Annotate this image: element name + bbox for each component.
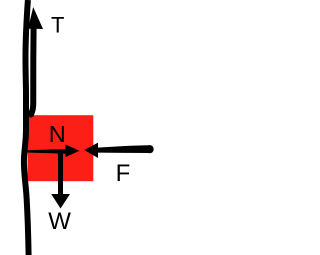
weight W arrowhead [51, 194, 70, 209]
tension T arrow shaft [31, 28, 34, 115]
block (red square) [28, 115, 94, 181]
weight W arrow shaft [58, 152, 63, 195]
normal N arrow shaft [27, 149, 67, 154]
tension T arrowhead [28, 7, 43, 29]
wall [24, 0, 29, 255]
applied force F arrowhead [84, 143, 98, 158]
svg-text:N: N [49, 121, 66, 147]
svg-text:F: F [116, 160, 131, 187]
svg-text:T: T [51, 13, 64, 38]
svg-text:W: W [48, 208, 71, 235]
normal N arrowhead [66, 145, 80, 158]
applied force F arrow shaft [98, 145, 152, 153]
